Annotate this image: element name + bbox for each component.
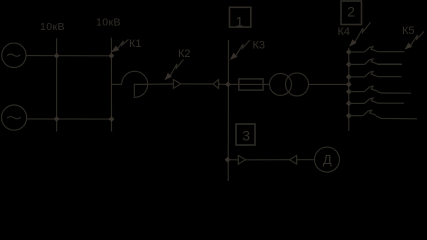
wire bus B to fuse (229, 83, 239, 85)
svg-text:2: 2 (347, 4, 355, 20)
node feeder3 tap (346, 74, 352, 80)
node feeder5 tap (346, 101, 352, 107)
feeder 4 line with switch (349, 86, 411, 93)
svg-text:10кВ: 10кВ (40, 21, 65, 33)
fault arrow K4 (349, 22, 370, 47)
svg-text:1: 1 (236, 13, 244, 29)
box 1 (230, 7, 251, 29)
svg-text:Д: Д (323, 152, 332, 167)
node G1-bus junction (109, 53, 115, 59)
feeder 3 line with switch (349, 71, 402, 77)
node G2-bus junction (109, 116, 115, 122)
generator G1 (2, 43, 26, 67)
wire G2 to bus (27, 118, 112, 120)
wire cable run (181, 83, 213, 85)
node motor feeder tap (225, 157, 231, 163)
node feeder6 tap (346, 113, 352, 119)
generator G2 (2, 105, 27, 130)
node G1-tie junction (54, 53, 60, 59)
bus 10kV right vertical (110, 38, 112, 132)
wire motor cable run (245, 159, 289, 161)
cable termination left (173, 80, 180, 89)
feeder 1 line with switch (349, 47, 405, 53)
svg-text:К5: К5 (402, 25, 415, 37)
cable termination motor right (290, 155, 297, 164)
wire bus B to motor cable (228, 159, 238, 161)
fault arrow K3 (230, 40, 250, 60)
svg-text:К1: К1 (129, 38, 142, 50)
node feeder1 tap (346, 49, 352, 55)
svg-text:10кВ: 10кВ (96, 17, 121, 29)
svg-text:3: 3 (242, 128, 250, 144)
motor D (315, 147, 340, 172)
node feeder4 tap (346, 89, 352, 95)
wire fuse to transformer (263, 83, 269, 85)
svg-text:К2: К2 (178, 48, 191, 60)
node G2-tie junction (54, 116, 60, 122)
bus C vertical (348, 48, 350, 131)
cable termination motor left (238, 155, 245, 164)
wire bus to reactor (111, 83, 121, 85)
wire left tie vertical (56, 38, 58, 131)
feeder 2 line with switch (349, 59, 402, 65)
bus B vertical (227, 40, 229, 181)
node main-line tap (346, 82, 352, 88)
box 2 (341, 1, 362, 25)
fuse F1 (239, 79, 263, 90)
fault arrow K2 (165, 60, 184, 81)
wire transformer to bus C (309, 83, 349, 85)
wire reactor to cable head (134, 83, 173, 85)
fault arrow K1 (111, 39, 128, 52)
node bus B / main line junction (225, 82, 231, 88)
feeder 6 line with switch (349, 110, 417, 119)
svg-text:К4: К4 (338, 26, 351, 38)
box 3 (236, 124, 255, 145)
wire cable to bus B (219, 83, 229, 85)
transformer T1 (270, 73, 309, 96)
wire G1 to bus (26, 55, 111, 57)
wire cable to motor (297, 159, 315, 161)
fault arrow K5 (405, 32, 425, 50)
feeder 5 line with switch (349, 98, 404, 104)
cable termination right (213, 80, 219, 89)
node feeder2 tap (346, 62, 352, 68)
reactor LR (122, 71, 148, 97)
svg-text:К3: К3 (253, 40, 266, 52)
